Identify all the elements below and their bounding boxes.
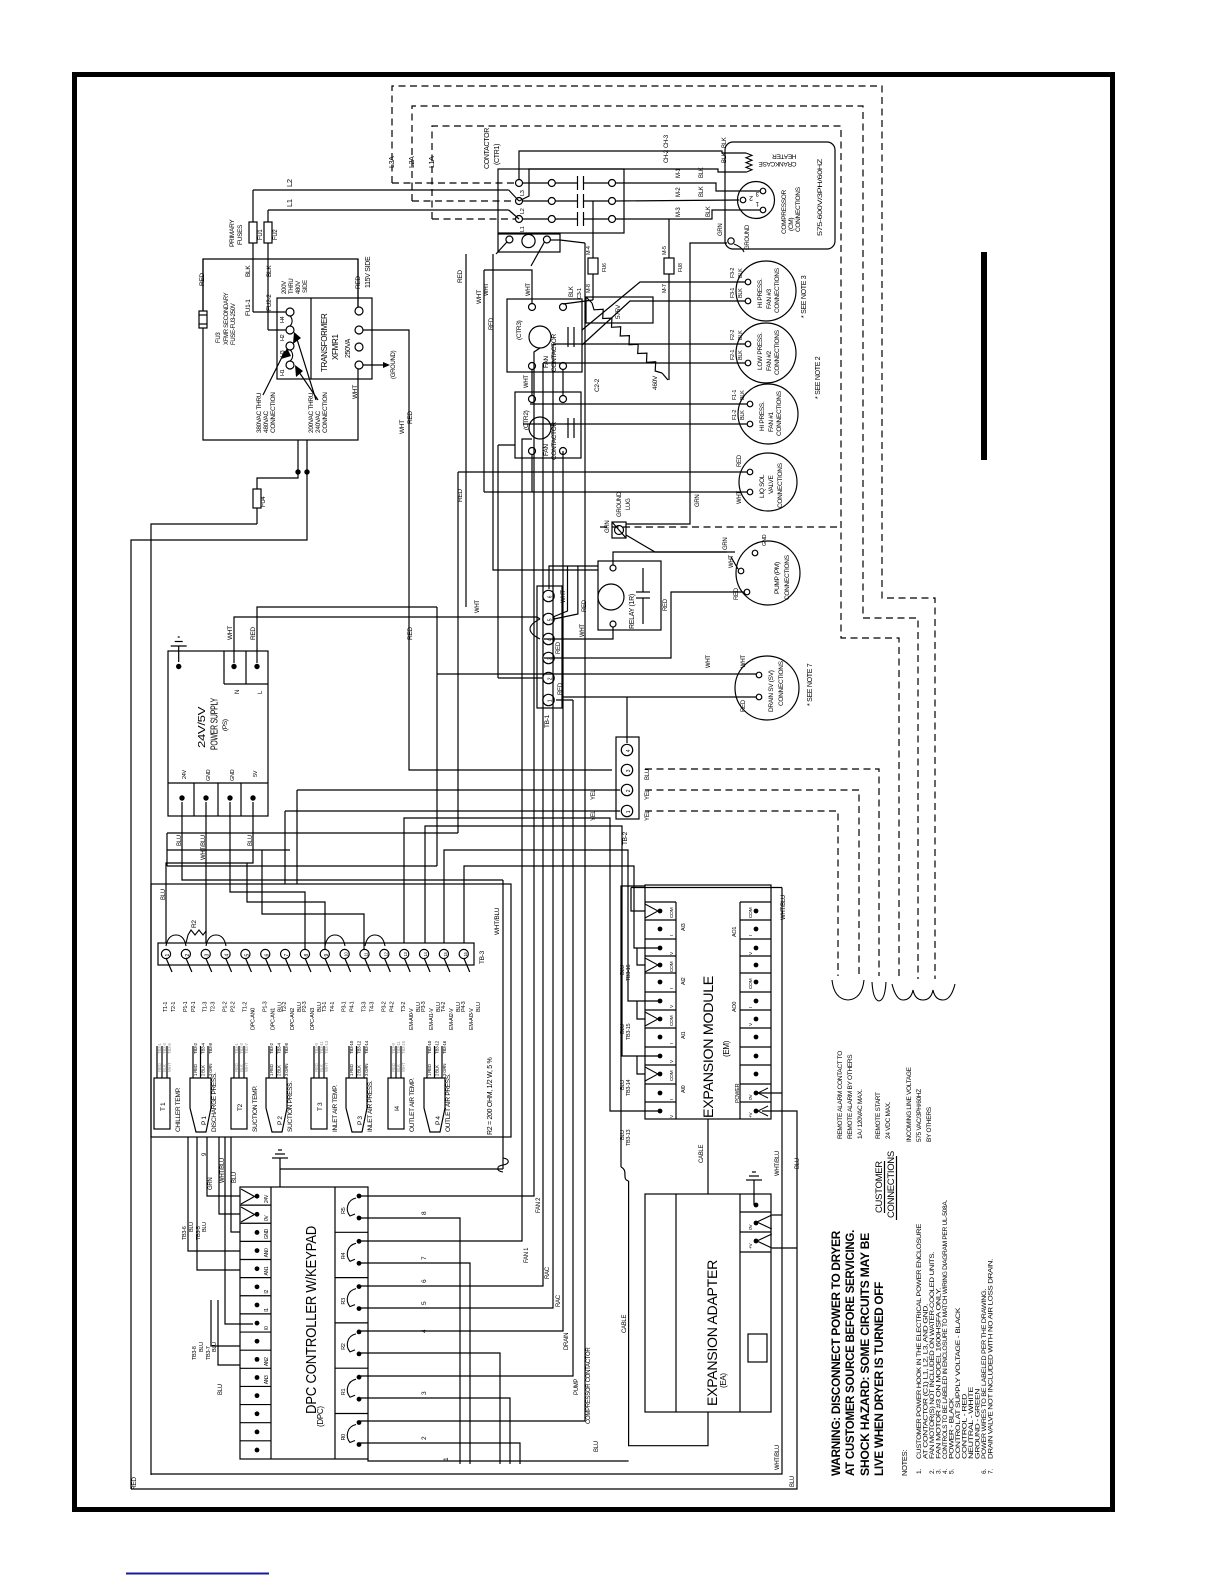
sensor P3 bbox=[346, 1078, 367, 1132]
svg-text:TB-1: TB-1 bbox=[544, 714, 551, 728]
PS ground symbol bbox=[171, 645, 187, 647]
svg-text:(PS): (PS) bbox=[222, 719, 229, 731]
DPC relay R3 bbox=[335, 1277, 368, 1279]
compressor connections box bbox=[725, 142, 835, 249]
fan contactor CTR3 box bbox=[507, 299, 582, 372]
svg-text:EM-AI1-V: EM-AI1-V bbox=[429, 1008, 435, 1030]
svg-text:T2-2: T2-2 bbox=[282, 1002, 288, 1012]
TB-3 terminal 10 bbox=[340, 949, 349, 958]
svg-text:WHT: WHT bbox=[399, 420, 406, 434]
svg-text:FAN: FAN bbox=[543, 444, 550, 456]
svg-text:RED: RED bbox=[741, 699, 747, 712]
svg-text:5V: 5V bbox=[253, 770, 259, 777]
TB-1 terminal 5 bbox=[543, 613, 554, 624]
EM right terminal I bbox=[740, 991, 771, 993]
TB-2 terminal 4 bbox=[621, 744, 632, 755]
svg-text:POWER: POWER bbox=[735, 1083, 741, 1103]
svg-text:CH-2: CH-2 bbox=[664, 149, 670, 163]
svg-text:BLU: BLU bbox=[189, 1222, 195, 1232]
svg-text:(GROUND): (GROUND) bbox=[391, 350, 397, 379]
svg-text:CUSTOMER: CUSTOMER bbox=[874, 1161, 885, 1213]
CTR3 terminals top bbox=[529, 304, 536, 311]
svg-text:2 BLK: 2 BLK bbox=[435, 1065, 440, 1076]
svg-text:I0: I0 bbox=[264, 1326, 270, 1330]
liquid solenoid valve circle bbox=[739, 453, 797, 511]
svg-text:TB-3: TB-3 bbox=[479, 950, 486, 964]
svg-text:VALVE: VALVE bbox=[768, 475, 775, 494]
svg-text:N: N bbox=[235, 690, 241, 694]
svg-text:AI0: AI0 bbox=[681, 1085, 687, 1093]
wire RED to TB1-5 bbox=[554, 566, 578, 619]
svg-text:T4-1: T4-1 bbox=[330, 1002, 336, 1012]
brace remote alarm wires bbox=[832, 980, 864, 1000]
svg-text:INLET AIR TEMP.: INLET AIR TEMP. bbox=[332, 1085, 339, 1132]
DPC relay R1 bbox=[335, 1367, 368, 1369]
svg-text:M-5: M-5 bbox=[662, 246, 668, 255]
wire FU1-1 bbox=[252, 259, 254, 312]
svg-text:3 GRN: 3 GRN bbox=[364, 1064, 369, 1076]
fuse FU6 column M-4/M-8 bbox=[592, 201, 594, 258]
sensor I4 bbox=[388, 1078, 404, 1129]
svg-text:L1A: L1A bbox=[429, 156, 436, 168]
EM left terminal COM bbox=[645, 1009, 676, 1011]
sensor area box bbox=[151, 884, 511, 1137]
DPC relay R0 bbox=[335, 1413, 368, 1415]
svg-text:I4: I4 bbox=[394, 1105, 401, 1111]
wire TB2-1 RAC bbox=[285, 810, 620, 812]
svg-text:FU3: FU3 bbox=[216, 332, 222, 343]
DPC input arrows bbox=[241, 1189, 255, 1204]
DPC terminal AN1 bbox=[240, 1259, 271, 1261]
svg-text:BLU: BLU bbox=[620, 1024, 626, 1034]
svg-text:WHT/BLU: WHT/BLU bbox=[494, 907, 501, 935]
wire R3 RAC1 bbox=[360, 363, 543, 1286]
expansion adapter box bbox=[645, 1194, 771, 1412]
svg-text:RAC: RAC bbox=[556, 1294, 562, 1307]
svg-text:P3-2: P3-2 bbox=[381, 1001, 387, 1012]
TB-3 terminal 2 bbox=[181, 949, 190, 958]
wire DPC GND BLU bbox=[231, 1137, 240, 1232]
wire bundle y850 bbox=[167, 849, 290, 851]
wire EA bottom cable bbox=[629, 1181, 708, 1446]
EM COM bus wires bbox=[631, 888, 645, 912]
CTR2 capacitor bbox=[567, 418, 569, 438]
DPC terminal I1 bbox=[240, 1295, 271, 1297]
svg-text:DPC CONTROLLER W/KEYPAD: DPC CONTROLLER W/KEYPAD bbox=[304, 1226, 320, 1414]
svg-text:CONNECTIONS: CONNECTIONS bbox=[777, 462, 784, 508]
wire DPC 24V GRN bbox=[207, 1137, 240, 1196]
compressor terminal 2 bbox=[740, 197, 746, 203]
svg-text:M-8: M-8 bbox=[586, 284, 592, 293]
EA +V terminal bbox=[754, 1239, 759, 1244]
TB-3 terminal 10 wire labels bbox=[345, 958, 351, 972]
dashed stub L2A to contactor bbox=[412, 200, 515, 202]
svg-text:P2-1: P2-1 bbox=[191, 1001, 197, 1012]
EA wires to bus bbox=[772, 1214, 782, 1216]
wire PS 24V BLU down bbox=[182, 802, 503, 880]
svg-text:PUMP: PUMP bbox=[574, 1379, 580, 1395]
EA small rect bbox=[748, 1334, 767, 1362]
power supply box bbox=[168, 651, 268, 816]
svg-text:BY OTHERS: BY OTHERS bbox=[926, 1106, 933, 1142]
DPC terminal nc13 bbox=[240, 1422, 271, 1424]
wire TB1-6 to relay bbox=[549, 566, 598, 589]
svg-text:WHT: WHT bbox=[244, 1062, 249, 1072]
EM left terminal COM bbox=[658, 909, 663, 914]
EM right terminal nc9 bbox=[740, 1064, 771, 1066]
svg-text:CONNECTIONS: CONNECTIONS bbox=[795, 186, 802, 232]
svg-text:F2-1: F2-1 bbox=[730, 350, 736, 360]
wire R5b bbox=[360, 1218, 460, 1464]
wire fan1 top bbox=[530, 403, 747, 405]
wire 115V hot bbox=[357, 259, 359, 307]
wire EM to EA cable bbox=[707, 1119, 709, 1194]
fuse FU1 bbox=[249, 222, 257, 243]
transformer XFMR1 box bbox=[277, 298, 372, 379]
wire FU2-2 bbox=[267, 259, 269, 330]
svg-text:XFMR SECONDARY: XFMR SECONDARY bbox=[224, 292, 230, 345]
DPC terminal 24V bbox=[255, 1194, 260, 1199]
svg-text:P1-2: P1-2 bbox=[223, 1001, 229, 1012]
TB-3 terminal 6 bbox=[261, 949, 270, 958]
svg-text:GND: GND bbox=[762, 534, 768, 546]
svg-text:CONTACTOR: CONTACTOR bbox=[551, 422, 558, 460]
svg-text:P 3: P 3 bbox=[357, 1116, 364, 1125]
svg-text:F1-1: F1-1 bbox=[732, 390, 738, 400]
expansion module box bbox=[645, 885, 771, 1119]
wire fan3 top bbox=[582, 282, 745, 330]
svg-text:DRAIN VALVE NOT INCLUDED WITH: DRAIN VALVE NOT INCLUDED WITH NO AIR LOS… bbox=[988, 1258, 995, 1459]
svg-text:GRN: GRN bbox=[605, 521, 611, 533]
svg-text:T 1: T 1 bbox=[160, 1102, 167, 1111]
TB-3 jumper 9-10 bbox=[325, 935, 345, 946]
CTR3 coil circle bbox=[529, 326, 551, 348]
PS terminal L bbox=[254, 664, 259, 669]
svg-text:EM-AI0-V: EM-AI0-V bbox=[409, 1008, 415, 1030]
svg-text:COM: COM bbox=[748, 978, 754, 989]
svg-text:BLK: BLK bbox=[738, 350, 744, 360]
svg-text:I2: I2 bbox=[264, 1290, 270, 1294]
wire drain WHT bbox=[437, 673, 756, 675]
wires between CTR3 and CTR2 bbox=[531, 370, 533, 396]
EM right terminal COM bbox=[754, 909, 759, 914]
svg-text:WHT: WHT bbox=[476, 290, 483, 304]
svg-text:TB3-13: TB3-13 bbox=[626, 1130, 632, 1146]
svg-text:TB3-4: TB3-4 bbox=[277, 1042, 282, 1054]
wire pump RED bbox=[544, 592, 744, 658]
wire coil to compressor contactor riser bbox=[550, 239, 560, 241]
EM right terminal nc8 bbox=[740, 1046, 771, 1048]
svg-text:P 2: P 2 bbox=[277, 1116, 284, 1125]
drawing border frame bbox=[75, 75, 1113, 1510]
svg-text:PUMP (PM): PUMP (PM) bbox=[774, 562, 781, 594]
svg-text:I: I bbox=[669, 935, 675, 936]
svg-text:FU1: FU1 bbox=[258, 229, 264, 240]
svg-text:CONNECTIONS: CONNECTIONS bbox=[774, 267, 781, 313]
svg-text:BLU: BLU bbox=[645, 769, 651, 780]
svg-text:BLU: BLU bbox=[795, 1158, 801, 1169]
svg-text:24V: 24V bbox=[264, 1194, 270, 1203]
svg-text:3 GRN: 3 GRN bbox=[208, 1064, 213, 1076]
crankcase heater coil bbox=[746, 153, 752, 172]
svg-text:SHOCK HAZARD: SOME CIRCUI: SHOCK HAZARD: SOME CIRCUITS MAY BE bbox=[858, 1233, 872, 1476]
svg-text:TB3-5: TB3-5 bbox=[167, 1042, 172, 1054]
svg-text:T3-1: T3-1 bbox=[322, 1002, 328, 1012]
DPC terminal nc14 bbox=[240, 1440, 271, 1442]
wire valve bottom WHT bbox=[484, 491, 747, 493]
compressor terminal 1 bbox=[760, 207, 766, 213]
EM right terminal COM bbox=[740, 972, 771, 974]
EM top wire bbox=[631, 887, 782, 889]
svg-text:SUCTION TEMP.: SUCTION TEMP. bbox=[252, 1085, 259, 1132]
fan contactor CTR2 box bbox=[515, 392, 581, 458]
svg-text:I: I bbox=[669, 1043, 675, 1044]
svg-text:F3-2: F3-2 bbox=[730, 268, 736, 278]
svg-text:T4-2: T4-2 bbox=[441, 1002, 447, 1012]
svg-text:R4: R4 bbox=[341, 1253, 347, 1260]
DPC terminal GND bbox=[240, 1222, 271, 1224]
svg-text:INCOMING LINE VOLTAGE: INCOMING LINE VOLTAGE bbox=[906, 1066, 913, 1142]
wire pump WHT2 bbox=[731, 557, 738, 569]
wire fan2 bottom bbox=[543, 362, 745, 364]
DPC relay R4 bbox=[335, 1231, 368, 1233]
svg-text:CONTACTOR: CONTACTOR bbox=[551, 334, 558, 372]
svg-text:EM-AI2-V: EM-AI2-V bbox=[449, 1008, 455, 1030]
DPC terminal nc12 bbox=[240, 1404, 271, 1406]
DPC terminal AN3 bbox=[240, 1367, 271, 1369]
wire feed CTR2 bbox=[493, 254, 598, 570]
sensor T2 lead wires bbox=[233, 1046, 235, 1078]
svg-text:WHT: WHT bbox=[401, 1062, 406, 1072]
wire ground from xfmr bbox=[363, 364, 383, 366]
dashed enclosure boundary at ground lug bbox=[600, 526, 841, 528]
svg-text:BLU: BLU bbox=[218, 1384, 224, 1395]
contactor pole L1 bbox=[516, 216, 523, 223]
svg-text:(CM): (CM) bbox=[788, 218, 795, 231]
svg-text:RED: RED bbox=[199, 273, 206, 286]
DPC relay R2 bbox=[335, 1322, 368, 1324]
dashed wire TB-2 2 to remote alarm bbox=[645, 790, 859, 976]
svg-text:TB3-7: TB3-7 bbox=[244, 1042, 249, 1054]
svg-text:LIVE WHEN DRYER IS TURNED: LIVE WHEN DRYER IS TURNED OFF bbox=[872, 1282, 886, 1476]
svg-text:3 GRN: 3 GRN bbox=[442, 1064, 447, 1076]
TB-3 terminal 12 bbox=[380, 949, 389, 958]
wire EM to TB3-15 bbox=[444, 850, 660, 1001]
svg-text:L2: L2 bbox=[285, 179, 294, 187]
contactor coil box bbox=[498, 234, 560, 252]
EM right terminal V bbox=[740, 1009, 771, 1011]
wire drain RED bbox=[563, 696, 756, 698]
arrow 200VAC to H1 bbox=[297, 369, 318, 400]
svg-text:AO0: AO0 bbox=[732, 1002, 738, 1012]
DPC terminal nc8 bbox=[240, 1331, 271, 1333]
svg-text:RED: RED bbox=[250, 627, 257, 640]
svg-text:LOW PRESS.: LOW PRESS. bbox=[757, 332, 764, 370]
sensor P3 lead wires bbox=[348, 1046, 350, 1078]
svg-text:H1: H1 bbox=[280, 369, 286, 376]
svg-text:R2: R2 bbox=[191, 920, 198, 928]
TB-3 terminal 5 bbox=[241, 949, 250, 958]
svg-text:240VAC: 240VAC bbox=[315, 410, 322, 433]
sensor P1 bbox=[190, 1078, 211, 1132]
TB-3 jumper 1-2 bbox=[166, 935, 186, 946]
svg-text:RED: RED bbox=[737, 454, 743, 467]
svg-text:BLU: BLU bbox=[202, 1222, 208, 1232]
svg-text:(CTR1): (CTR1) bbox=[494, 144, 501, 165]
svg-text:WHT: WHT bbox=[484, 283, 490, 296]
svg-text:DPC-AN1: DPC-AN1 bbox=[270, 1008, 276, 1030]
svg-text:PRIMARY: PRIMARY bbox=[229, 219, 236, 247]
autotransformer tap wires bbox=[662, 373, 668, 380]
svg-text:TB3-16: TB3-16 bbox=[626, 965, 632, 981]
svg-text:WHT: WHT bbox=[524, 375, 530, 388]
wire PS L RED up bbox=[257, 607, 437, 663]
sensor T2 bbox=[231, 1078, 247, 1129]
autotransformer 575V box bbox=[586, 297, 653, 323]
terminal strip TB-3 box bbox=[158, 943, 474, 965]
svg-text:I: I bbox=[669, 988, 675, 989]
EM right terminal nc3 bbox=[740, 955, 771, 957]
svg-text:FAN 2: FAN 2 bbox=[536, 1197, 542, 1213]
DPC relay R5 bbox=[357, 1194, 362, 1199]
svg-text:GRN: GRN bbox=[723, 538, 729, 550]
TB-3 terminal 3 wire labels bbox=[206, 958, 212, 972]
wire x437 riser bbox=[436, 607, 438, 866]
EM left terminal I bbox=[645, 1083, 676, 1085]
svg-text:1 RED: 1 RED bbox=[193, 1063, 198, 1076]
TB-3 terminal 13 bbox=[400, 949, 409, 958]
compressor ground terminal bbox=[728, 238, 734, 244]
dashed field-wiring line L2A bbox=[412, 106, 918, 979]
svg-text:EM-AI3-V: EM-AI3-V bbox=[469, 1008, 475, 1030]
fan #1 connections circle bbox=[738, 384, 798, 444]
svg-text:M-3: M-3 bbox=[676, 207, 682, 217]
svg-text:YEL: YEL bbox=[645, 810, 651, 821]
svg-text:BLK: BLK bbox=[569, 286, 575, 297]
svg-text:T 3: T 3 bbox=[317, 1102, 324, 1111]
dashed field-wiring line L3A bbox=[392, 86, 935, 979]
svg-text:TB3-14: TB3-14 bbox=[626, 1080, 632, 1096]
EA 0V terminal bbox=[754, 1221, 759, 1226]
svg-text:RED: RED bbox=[407, 627, 414, 640]
svg-text:TB3-10: TB3-10 bbox=[427, 1040, 432, 1054]
svg-text:RAC: RAC bbox=[545, 1266, 551, 1279]
svg-text:TB3-2: TB3-2 bbox=[269, 1042, 274, 1054]
svg-text:RED: RED bbox=[489, 317, 495, 330]
svg-text:COMPRESSOR: COMPRESSOR bbox=[781, 189, 788, 234]
dashed wire TB-2 1 to remote alarm bbox=[645, 811, 838, 976]
svg-text:F2-2: F2-2 bbox=[730, 330, 736, 340]
wire valve top RED bbox=[458, 471, 747, 473]
svg-text:C3-1: C3-1 bbox=[577, 288, 583, 299]
svg-text:P3-3: P3-3 bbox=[421, 1001, 427, 1012]
EM right terminal 0V bbox=[740, 1083, 771, 1085]
svg-text:L2: L2 bbox=[520, 208, 526, 214]
svg-text:1.: 1. bbox=[916, 1469, 923, 1474]
svg-text:BLU: BLU bbox=[594, 1441, 600, 1452]
svg-text:480V: 480V bbox=[296, 281, 302, 294]
wire DPC I0 bbox=[225, 1137, 253, 1324]
svg-text:TB3-2: TB3-2 bbox=[193, 1042, 198, 1054]
svg-text:BLK: BLK bbox=[245, 265, 252, 277]
wire M-3 to compressor bbox=[616, 210, 761, 219]
wire CTR2 bottom to valve line bbox=[531, 455, 533, 492]
svg-text:GND: GND bbox=[206, 769, 212, 781]
svg-text:R2 = 200 OHM, 1/2 W, 5 %: R2 = 200 OHM, 1/2 W, 5 % bbox=[487, 1058, 494, 1135]
TB-3 terminal 16 bbox=[459, 949, 468, 958]
EM left terminal I bbox=[645, 972, 676, 974]
DPC terminal I2 bbox=[240, 1277, 271, 1279]
svg-text:WHT/BLU: WHT/BLU bbox=[201, 835, 207, 860]
fuse FU4 bbox=[253, 489, 261, 508]
wire R2 DRAIN bbox=[360, 451, 563, 1331]
svg-text:P 1: P 1 bbox=[201, 1116, 208, 1125]
svg-text:WHT: WHT bbox=[475, 600, 481, 613]
wire R0b bbox=[360, 1443, 520, 1464]
svg-text:T1-3: T1-3 bbox=[203, 1002, 209, 1012]
CTR3 capacitor bbox=[567, 327, 569, 347]
wire R1 PUMP bbox=[360, 700, 573, 1376]
svg-text:YEL: YEL bbox=[645, 789, 651, 800]
svg-text:BLK: BLK bbox=[706, 206, 712, 217]
PS output terminals bbox=[179, 795, 184, 800]
svg-text:250VA: 250VA bbox=[345, 338, 352, 358]
svg-text:GND: GND bbox=[230, 769, 236, 781]
svg-text:P1-1: P1-1 bbox=[183, 1001, 189, 1012]
svg-text:7.: 7. bbox=[988, 1469, 995, 1474]
wire transformer secondary loop bbox=[203, 328, 358, 440]
svg-text:P 4: P 4 bbox=[435, 1116, 442, 1125]
wire loop transformer primary bbox=[203, 259, 358, 328]
svg-text:XFMR1: XFMR1 bbox=[331, 334, 340, 360]
svg-text:WHT/BLU: WHT/BLU bbox=[775, 1151, 781, 1176]
TB-3 terminal 14 bbox=[419, 949, 428, 958]
svg-text:BLU: BLU bbox=[790, 1476, 796, 1487]
svg-text:TB3-14: TB3-14 bbox=[364, 1040, 369, 1054]
wire CH-3 bbox=[519, 169, 728, 201]
terminal strip TB-1 box bbox=[537, 586, 562, 708]
svg-text:I: I bbox=[748, 1007, 754, 1008]
svg-text:575 VAC/3PH/60HZ: 575 VAC/3PH/60HZ bbox=[916, 1089, 923, 1142]
svg-text:TB-2: TB-2 bbox=[622, 831, 629, 845]
EM right terminal +V bbox=[740, 1101, 771, 1103]
svg-text:HI PRESS.: HI PRESS. bbox=[759, 401, 766, 431]
svg-text:REMOTE ALARM CONTACT TO: REMOTE ALARM CONTACT TO bbox=[837, 1051, 844, 1139]
wire R5 FAN2 bbox=[360, 348, 540, 1196]
svg-text:AT CUSTOMER SOURCE BEFORE: AT CUSTOMER SOURCE BEFORE SERVICING. bbox=[843, 1230, 857, 1476]
svg-text:GROUND: GROUND bbox=[745, 224, 751, 250]
svg-text:BLU: BLU bbox=[476, 1002, 482, 1012]
svg-text:R5: R5 bbox=[341, 1207, 347, 1214]
svg-text:FU6: FU6 bbox=[602, 263, 608, 272]
svg-text:L3A: L3A bbox=[389, 156, 396, 168]
svg-text:BLU: BLU bbox=[232, 1172, 238, 1183]
svg-text:DRAIN SV (SV): DRAIN SV (SV) bbox=[768, 670, 775, 712]
wire DPC AN3 bbox=[218, 1300, 240, 1365]
transformer primary winding arcs bbox=[290, 316, 293, 361]
svg-text:BLK: BLK bbox=[738, 268, 744, 278]
svg-text:GRN: GRN bbox=[695, 495, 701, 507]
svg-text:REMOTE START: REMOTE START bbox=[875, 1092, 882, 1139]
relay terminal bottom bbox=[610, 621, 616, 627]
TB-3 terminal 8 bbox=[300, 949, 309, 958]
brace incoming line voltage wires bbox=[892, 984, 955, 1000]
DPC terminal I0 bbox=[240, 1313, 271, 1315]
compressor terminal 3 bbox=[760, 188, 766, 194]
svg-text:GROUND: GROUND bbox=[617, 491, 623, 517]
svg-text:P3-1: P3-1 bbox=[342, 1001, 348, 1012]
svg-text:TRANSFORMER: TRANSFORMER bbox=[320, 313, 329, 372]
